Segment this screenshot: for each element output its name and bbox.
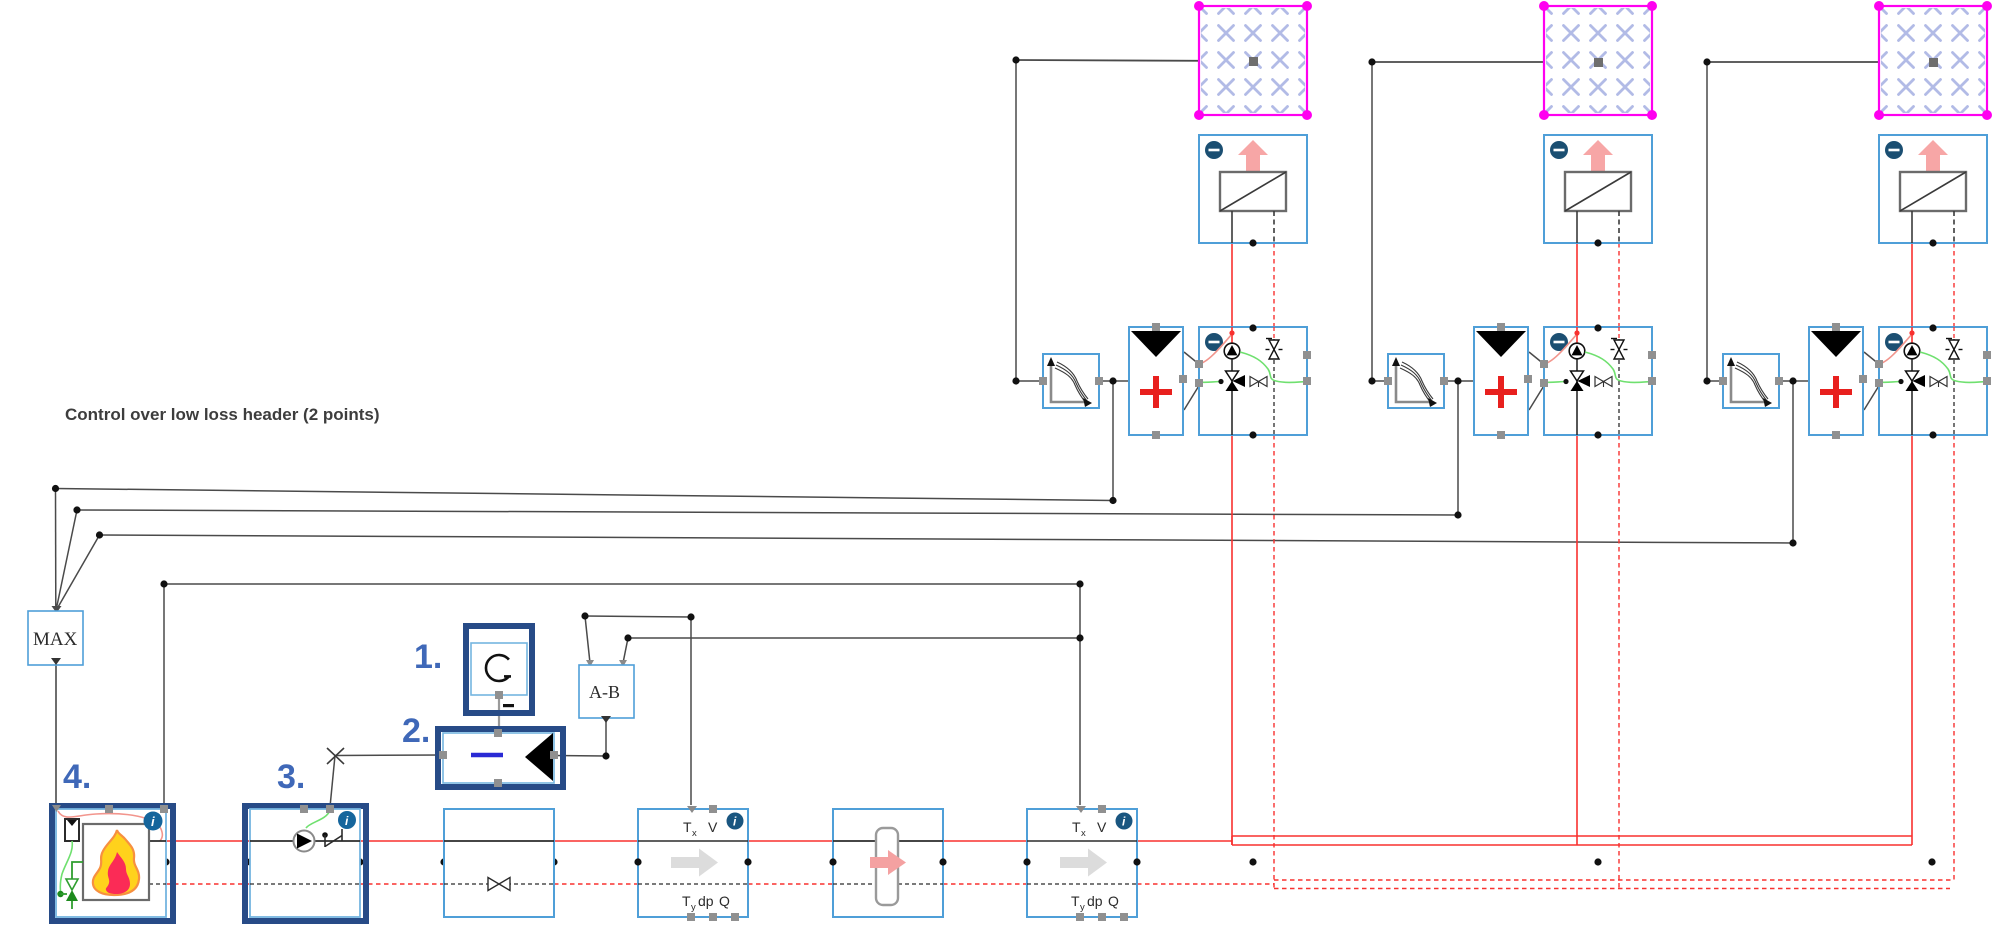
- radiator E1: [1199, 135, 1307, 247]
- node room Z1 sensor handle: [1249, 57, 1258, 66]
- pipe sensor block S1 (Tx V / Ty dp Q): [634, 805, 751, 921]
- svg-text:1.: 1.: [414, 638, 442, 676]
- node dot zone1 curve in corner: [1012, 377, 1019, 384]
- node dot zone1 corner: [1012, 56, 1019, 63]
- pipe supply zone3 riser: [1911, 435, 1913, 845]
- wire zone2 curve to demand block: [1444, 380, 1474, 382]
- room zone Z2: [1539, 1, 1657, 120]
- svg-text:4.: 4.: [63, 758, 91, 796]
- node dot valvebox right port: [550, 858, 557, 865]
- wire zone3 to curve input: [1707, 380, 1723, 382]
- wire zone2 demand to pump slants: [1529, 352, 1545, 365]
- node dot boiler right port: [162, 858, 169, 865]
- wire zone3 room sensor drop: [1706, 62, 1708, 381]
- pipe return zone3 radiator drop dashed: [1953, 243, 1955, 327]
- node dot zone3 curve in corner: [1703, 377, 1710, 384]
- wire sensor X to pump3 slant: [330, 756, 335, 808]
- pipe sensor block S2 (Tx V / Ty dp Q): [1023, 805, 1140, 921]
- svg-text:2.: 2.: [402, 712, 430, 750]
- wire zone3 room sensor horizontal: [1707, 61, 1930, 63]
- main pump block P4: [250, 805, 360, 917]
- wire zone1 room sensor horizontal: [1016, 60, 1250, 61]
- node dot zone2 bus end: [1454, 511, 1461, 518]
- wire MAX input drop 1: [55, 489, 57, 609]
- node dot zone2 corner: [1368, 58, 1375, 65]
- node dot boiler status: [160, 580, 167, 587]
- wire zone1 curve to demand block: [1099, 380, 1129, 382]
- radiator E3: [1879, 135, 1987, 247]
- wire zone2 to curve input: [1372, 380, 1388, 382]
- room zone Z1: [1194, 1, 1312, 120]
- wire zone3 curve to demand block: [1779, 380, 1809, 382]
- heating curve controller HC3: [1719, 354, 1783, 408]
- node dot MAX bus 1: [52, 485, 59, 492]
- node dot valvebox left port: [440, 858, 447, 865]
- node dot sensor2 mid: [1076, 634, 1083, 641]
- pipe supply TxV2 to riser junction: [1137, 840, 1232, 842]
- wire MAX input drop 2: [57, 510, 78, 608]
- MAX selector block U5: [28, 611, 83, 665]
- pipe supply zone1 riser: [1231, 435, 1233, 845]
- wire control bus zone3 to MAX: [100, 535, 1794, 543]
- node A-B left input arrowhead: [586, 660, 594, 667]
- pipe return zone3 riser dashed: [1953, 435, 1955, 880]
- wire boiler status riser: [163, 584, 165, 807]
- node dot zone2 curve in corner: [1368, 377, 1375, 384]
- wire MAX input drop 3: [58, 535, 100, 608]
- node MAX input arrowhead: [52, 606, 62, 613]
- heat demand block D1: [1129, 323, 1187, 439]
- pipe supply TxV1 to orifice: [748, 840, 833, 842]
- wire zone2 room sensor horizontal: [1372, 61, 1595, 63]
- node dot pump3 right port: [356, 858, 363, 865]
- wire A-B left input slant: [585, 616, 590, 663]
- wire boiler status horizontal: [164, 583, 1080, 585]
- wire subtractor input from sensor X: [335, 754, 443, 757]
- svg-text:3.: 3.: [277, 758, 305, 796]
- pipe return zone2 riser dashed: [1618, 435, 1620, 888]
- wire zone1 curve output drop: [1112, 381, 1114, 501]
- pipe return zone1 riser dashed: [1273, 435, 1275, 888]
- node dot zone3 bus end: [1789, 539, 1796, 546]
- node dot sensor1 corner: [687, 613, 694, 620]
- wire A-B output drop: [605, 722, 607, 756]
- highlight frame 2: [438, 729, 563, 787]
- radiator E2: [1544, 135, 1652, 247]
- node dot MAX bus 2: [73, 506, 80, 513]
- node dot zone1 bus end: [1109, 497, 1116, 504]
- node dot A-B output corner: [602, 752, 609, 759]
- zone pump group P1: [1195, 324, 1311, 438]
- heat demand block D3: [1809, 323, 1867, 439]
- pipe return zone2 radiator drop dashed: [1618, 243, 1620, 327]
- wire zone1 room sensor drop: [1015, 60, 1017, 381]
- highlight frame 1: [466, 626, 532, 713]
- PI controller block U1: [471, 643, 527, 707]
- pipe return bus upper dashed: [1274, 879, 1954, 881]
- shut-off valve box V1: [444, 809, 554, 917]
- wire control bus zone1 to MAX: [56, 489, 1114, 501]
- wire A-B left input horizontal: [585, 616, 691, 617]
- wire control bus zone2 to MAX: [77, 510, 1458, 515]
- node dot zone2 curve out: [1454, 377, 1461, 384]
- node dot zone1 curve out: [1109, 377, 1116, 384]
- wire A-B output to subtractor: [554, 755, 606, 758]
- svg-text:A-B: A-B: [589, 682, 620, 702]
- node dot A-B left: [581, 612, 588, 619]
- node dot zone3 corner: [1703, 58, 1710, 65]
- wire PI output to subtractor: [498, 695, 500, 733]
- pipe supply zone2 riser: [1576, 435, 1578, 845]
- node dot sensor2 top: [1076, 580, 1083, 587]
- wire MAX output to boiler: [55, 665, 57, 806]
- pipe supply zone3 radiator drop: [1911, 243, 1913, 327]
- wire sensor drop to TxV2: [1079, 584, 1081, 805]
- node dot zone3 curve out: [1789, 377, 1796, 384]
- svg-text:i: i: [151, 814, 155, 829]
- heating curve controller HC1: [1039, 354, 1103, 408]
- wire zone1 to curve input: [1016, 380, 1043, 382]
- boiler B1: [52, 805, 168, 917]
- low loss header / orifice block H1: [829, 809, 946, 917]
- svg-text:MAX: MAX: [33, 629, 78, 650]
- subtractor block U2: [439, 729, 558, 787]
- node dot MAX bus 3: [96, 531, 103, 538]
- node dot bus zone1: [1249, 858, 1256, 865]
- node room Z3 sensor handle: [1929, 58, 1938, 67]
- node A-B right input arrowhead: [619, 660, 627, 667]
- heating curve controller HC2: [1384, 354, 1448, 408]
- wire sensor drop to TxV1: [690, 617, 692, 805]
- zone pump group P2: [1540, 324, 1656, 438]
- wire zone3 demand to pump slants: [1864, 352, 1880, 365]
- pipe supply bus lower: [1232, 844, 1912, 846]
- wire zone3 curve output drop: [1792, 381, 1794, 543]
- pipe supply pump3 to valve box: [360, 840, 444, 842]
- pipe supply valve box to TxV1: [554, 840, 638, 842]
- pipe supply zone2 radiator drop: [1576, 243, 1578, 327]
- wire zone2 room sensor drop: [1371, 62, 1373, 381]
- svg-text:Control over low loss header (: Control over low loss header (2 points): [65, 405, 380, 424]
- pipe supply jog at zone1 riser: [1231, 836, 1233, 845]
- pipe return boiler to zone1 dashed: [166, 883, 250, 885]
- highlight frame 3: [245, 806, 366, 921]
- zone pump group P3: [1875, 324, 1991, 438]
- room zone Z3: [1874, 1, 1992, 120]
- pipe supply zone1 radiator drop: [1231, 243, 1233, 327]
- sensor X crossing near pump3: [327, 748, 344, 764]
- node room Z2 sensor handle: [1594, 58, 1603, 67]
- pipe supply orifice to TxV2: [943, 840, 1027, 842]
- A-B subtract block U4: [579, 665, 634, 723]
- pipe return bus lower dashed: [1274, 888, 1950, 890]
- highlight frame 4: [52, 806, 173, 921]
- wire zone1 demand to pump slants: [1184, 352, 1200, 365]
- pipe supply boiler to pump3: [166, 840, 250, 842]
- node dot bus zone3: [1928, 858, 1935, 865]
- wire A-B right input horizontal: [628, 637, 1080, 639]
- node dot bus zone2: [1594, 858, 1601, 865]
- wire A-B right input slant: [623, 638, 628, 663]
- node dot pump3 left port: [246, 858, 253, 865]
- wire zone2 curve output drop: [1457, 381, 1459, 515]
- pipe return zone1 radiator drop dashed: [1273, 243, 1275, 327]
- node dot A-B right: [624, 634, 631, 641]
- heat demand block D2: [1474, 323, 1532, 439]
- pipe supply bus upper: [1232, 835, 1912, 837]
